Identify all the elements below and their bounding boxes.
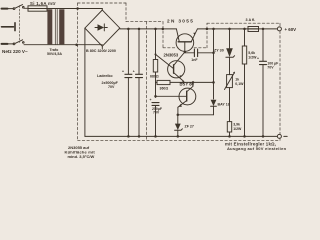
- svg-text:ZY 30: ZY 30: [214, 49, 224, 53]
- feedthrough dot bottom wire: [75, 43, 78, 46]
- svg-text:3 A fl.: 3 A fl.: [246, 18, 256, 22]
- output terminal 0V: [277, 134, 281, 138]
- switch coupling dashed link: [18, 6, 20, 43]
- svg-text:360Ω: 360Ω: [160, 86, 169, 90]
- transformer core: [55, 9, 57, 44]
- svg-text:Si 1,6A mtr: Si 1,6A mtr: [30, 1, 56, 6]
- svg-text:1nF: 1nF: [191, 58, 198, 62]
- svg-text:1/2W: 1/2W: [248, 55, 257, 59]
- fuse Si 1,6A: [28, 6, 47, 11]
- svg-text:50V/4,5A: 50V/4,5A: [47, 52, 62, 56]
- zener ZY30: [228, 28, 231, 31]
- bottom minus rail: [85, 135, 278, 137]
- feedthrough dot rail at boundary x163: [162, 28, 165, 31]
- svg-text:680Ω: 680Ω: [150, 74, 159, 78]
- resistor 3,9k 1/2W: [227, 122, 231, 132]
- svg-text:Ausgang auf 50V einstellen: Ausgang auf 50V einstellen: [227, 146, 287, 151]
- wire to transformer / bridge AC2: [24, 44, 102, 46]
- feedthrough dot rail at boundary x207: [206, 28, 209, 31]
- wire stub below bridge: [101, 46, 103, 48]
- sense column from rail: [212, 28, 215, 31]
- resistor 360 ohm: [157, 80, 170, 84]
- svg-text:BSY 86: BSY 86: [180, 81, 195, 86]
- wire bridge minus down: [84, 28, 86, 136]
- wire BAY18 column to zener node: [178, 114, 214, 116]
- switch S1b: [13, 43, 15, 45]
- diode BAY18: [211, 100, 217, 106]
- diode inside bridge: [98, 24, 105, 30]
- resistor 680 ohm: [153, 60, 157, 73]
- svg-text:+: +: [257, 57, 259, 61]
- switch S1a: [13, 8, 15, 10]
- svg-text:+: +: [122, 70, 124, 74]
- node T1 base: [184, 51, 186, 53]
- svg-text:0,1W: 0,1W: [235, 82, 244, 86]
- transistor Q3 BSY86: [179, 88, 196, 105]
- resistor 5,6k 1/2W: [243, 28, 246, 31]
- transformer Tr1 secondary winding: [59, 9, 64, 44]
- transformer Tr1 primary winding: [47, 9, 52, 44]
- paper background: [0, 0, 300, 161]
- svg-text:1/2W: 1/2W: [233, 127, 242, 131]
- wire fuse to transformer primary: [47, 8, 102, 10]
- mains earth prong: [2, 26, 14, 28]
- mains terminal L (top prong): [2, 8, 8, 10]
- svg-text:Ladeelko: Ladeelko: [97, 74, 113, 78]
- svg-text:+: +: [150, 98, 152, 102]
- compartment divider dashed: [146, 22, 148, 141]
- svg-text:mind. 3,5°C/W: mind. 3,5°C/W: [68, 154, 95, 159]
- node base / 250uF column: [154, 95, 157, 98]
- wire node to 360 ohm: [170, 81, 214, 83]
- svg-text:70V: 70V: [153, 111, 160, 115]
- wire Q3 emitter to zener node: [177, 107, 179, 115]
- bridge rectifier B80C 3200/2200 diamond: [85, 10, 120, 46]
- capacitor 250uF 70V: [152, 103, 159, 106]
- rail continues right of Q1: [197, 28, 277, 30]
- feedthrough dot top wire: [76, 7, 79, 10]
- svg-text:B 80C 3200/ 2200: B 80C 3200/ 2200: [86, 49, 116, 53]
- output terminal +60V: [277, 27, 281, 31]
- node column 680 ohm: [154, 28, 157, 31]
- transistor Q2 2N3053: [168, 61, 185, 78]
- bridge stub top: [101, 9, 103, 11]
- svg-text:BAY 18: BAY 18: [218, 103, 230, 107]
- svg-text:ZF 27: ZF 27: [185, 125, 194, 129]
- node Q2 emitter on wire: [182, 81, 185, 84]
- mains terminal N (bottom prong): [2, 43, 8, 45]
- Ladeelko capacitor C1: [127, 29, 129, 74]
- svg-text:+: +: [133, 70, 135, 74]
- svg-text:Netz 220 V~: Netz 220 V~: [2, 49, 28, 54]
- svg-text:2N 3055: 2N 3055: [167, 18, 194, 23]
- potentiometer 1k 0,1W: [227, 75, 233, 88]
- wire Q2 emitter down to node: [182, 81, 184, 82]
- svg-text:5,6k: 5,6k: [248, 51, 255, 55]
- capacitor 1nF: [185, 52, 195, 54]
- capacitor 100uF 70V: [262, 28, 265, 31]
- main dc rail plus: [120, 28, 177, 30]
- fuse 3A fl: [248, 27, 259, 32]
- svg-text:70V: 70V: [108, 85, 115, 89]
- svg-text:70V: 70V: [267, 66, 274, 70]
- enclosure dashed boundary: [78, 3, 280, 140]
- zener ZF27: [177, 115, 179, 124]
- svg-text:2N3053: 2N3053: [164, 52, 179, 57]
- Q3 base lead: [156, 95, 187, 97]
- Ladeelko capacitor C2: [138, 29, 140, 74]
- transistor Q1 2N3055: [176, 34, 194, 52]
- svg-text:3,9k: 3,9k: [233, 123, 240, 127]
- svg-text:+ 60V: + 60V: [285, 27, 297, 32]
